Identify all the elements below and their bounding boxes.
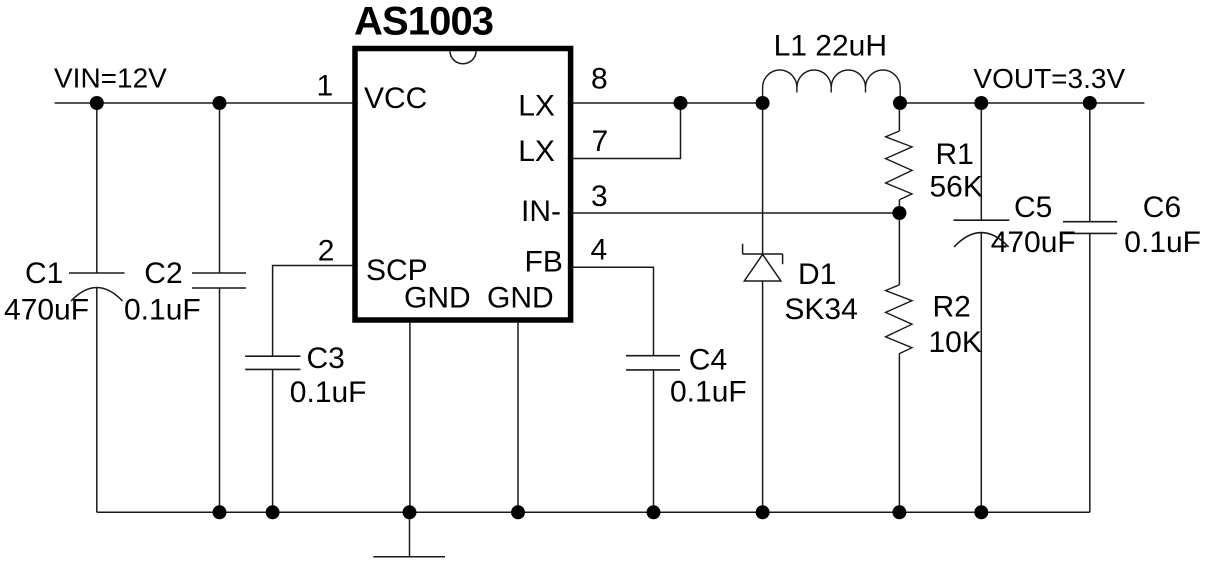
svg-text:VOUT=3.3V: VOUT=3.3V — [973, 63, 1125, 94]
svg-text:SK34: SK34 — [784, 293, 857, 326]
svg-text:7: 7 — [592, 125, 609, 158]
svg-text:VIN=12V: VIN=12V — [54, 63, 167, 94]
svg-text:D1: D1 — [798, 258, 836, 291]
svg-text:R1: R1 — [936, 138, 974, 171]
svg-text:8: 8 — [591, 62, 608, 95]
svg-text:470uF: 470uF — [991, 226, 1076, 259]
svg-text:LX: LX — [518, 135, 555, 168]
svg-text:C6: C6 — [1143, 191, 1181, 224]
svg-text:R2: R2 — [933, 291, 971, 324]
svg-text:0.1uF: 0.1uF — [1124, 226, 1201, 259]
svg-text:C4: C4 — [689, 344, 727, 377]
svg-text:VCC: VCC — [364, 82, 427, 115]
svg-text:C1: C1 — [25, 257, 63, 290]
svg-text:0.1uF: 0.1uF — [670, 376, 747, 409]
svg-text:GND: GND — [404, 282, 471, 315]
svg-text:0.1uF: 0.1uF — [124, 294, 201, 327]
svg-text:FB: FB — [525, 246, 563, 279]
svg-text:470uF: 470uF — [4, 294, 89, 327]
svg-text:LX: LX — [518, 90, 555, 123]
svg-text:3: 3 — [591, 180, 608, 213]
svg-text:IN-: IN- — [521, 195, 561, 228]
svg-text:GND: GND — [487, 282, 554, 315]
svg-text:56K: 56K — [930, 171, 983, 204]
svg-text:4: 4 — [591, 234, 608, 267]
svg-text:10K: 10K — [929, 326, 982, 359]
svg-text:C5: C5 — [1014, 191, 1052, 224]
svg-text:C3: C3 — [307, 342, 345, 375]
svg-text:0.1uF: 0.1uF — [290, 376, 367, 409]
svg-text:1: 1 — [317, 70, 334, 103]
svg-text:L1 22uH: L1 22uH — [774, 30, 887, 63]
svg-text:2: 2 — [318, 235, 335, 268]
svg-text:AS1003: AS1003 — [354, 0, 493, 43]
svg-text:C2: C2 — [144, 257, 182, 290]
